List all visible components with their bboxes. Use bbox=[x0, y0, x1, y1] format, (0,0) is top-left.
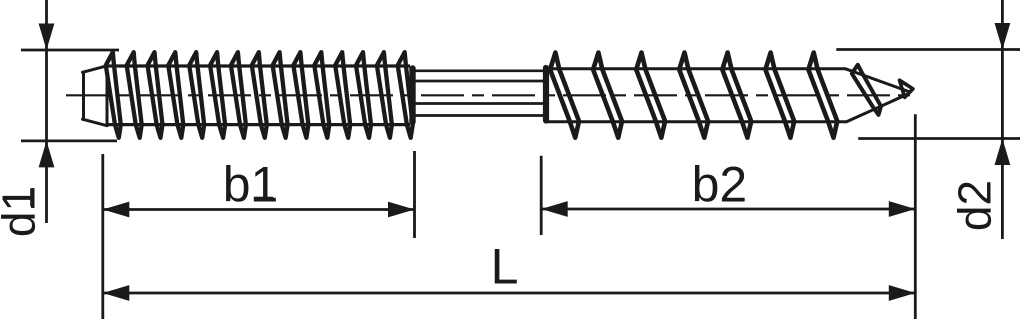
svg-text:d1: d1 bbox=[0, 186, 45, 237]
svg-text:b1: b1 bbox=[223, 156, 279, 212]
label d2 bbox=[949, 180, 1001, 231]
svg-text:b2: b2 bbox=[692, 157, 748, 213]
wood screw body outline bbox=[547, 69, 910, 122]
plain shank (middle section) bbox=[414, 71, 543, 116]
dimension b2: extension lines, dimension line, arrows bbox=[541, 114, 915, 319]
dimension b1: extension lines, dimension line, arrows bbox=[103, 151, 415, 319]
tip crest triangle bbox=[900, 80, 914, 97]
svg-text:d2: d2 bbox=[949, 180, 1001, 231]
wood screw thread (right section) bbox=[550, 53, 837, 138]
machine thread (metric thread, left section) bbox=[106, 52, 413, 138]
wood thread start bar bbox=[543, 68, 549, 121]
chamfered tip (left end of machine thread) bbox=[83, 66, 108, 126]
foot serif of digit 1 in label b1 bbox=[254, 197, 273, 202]
label d1 bbox=[0, 186, 45, 237]
dimension d2: extension lines, dimension line, arrows bbox=[836, 0, 1020, 239]
centerline (screw axis) bbox=[66, 94, 913, 96]
svg-text:L: L bbox=[491, 239, 519, 295]
dimension d1: extension lines, dimension line, arrows bbox=[21, 0, 119, 223]
machine thread runout bar bbox=[409, 69, 415, 123]
thread ridge on cone tip bbox=[852, 65, 881, 115]
dimension L: dimension line, arrows bbox=[103, 285, 916, 301]
